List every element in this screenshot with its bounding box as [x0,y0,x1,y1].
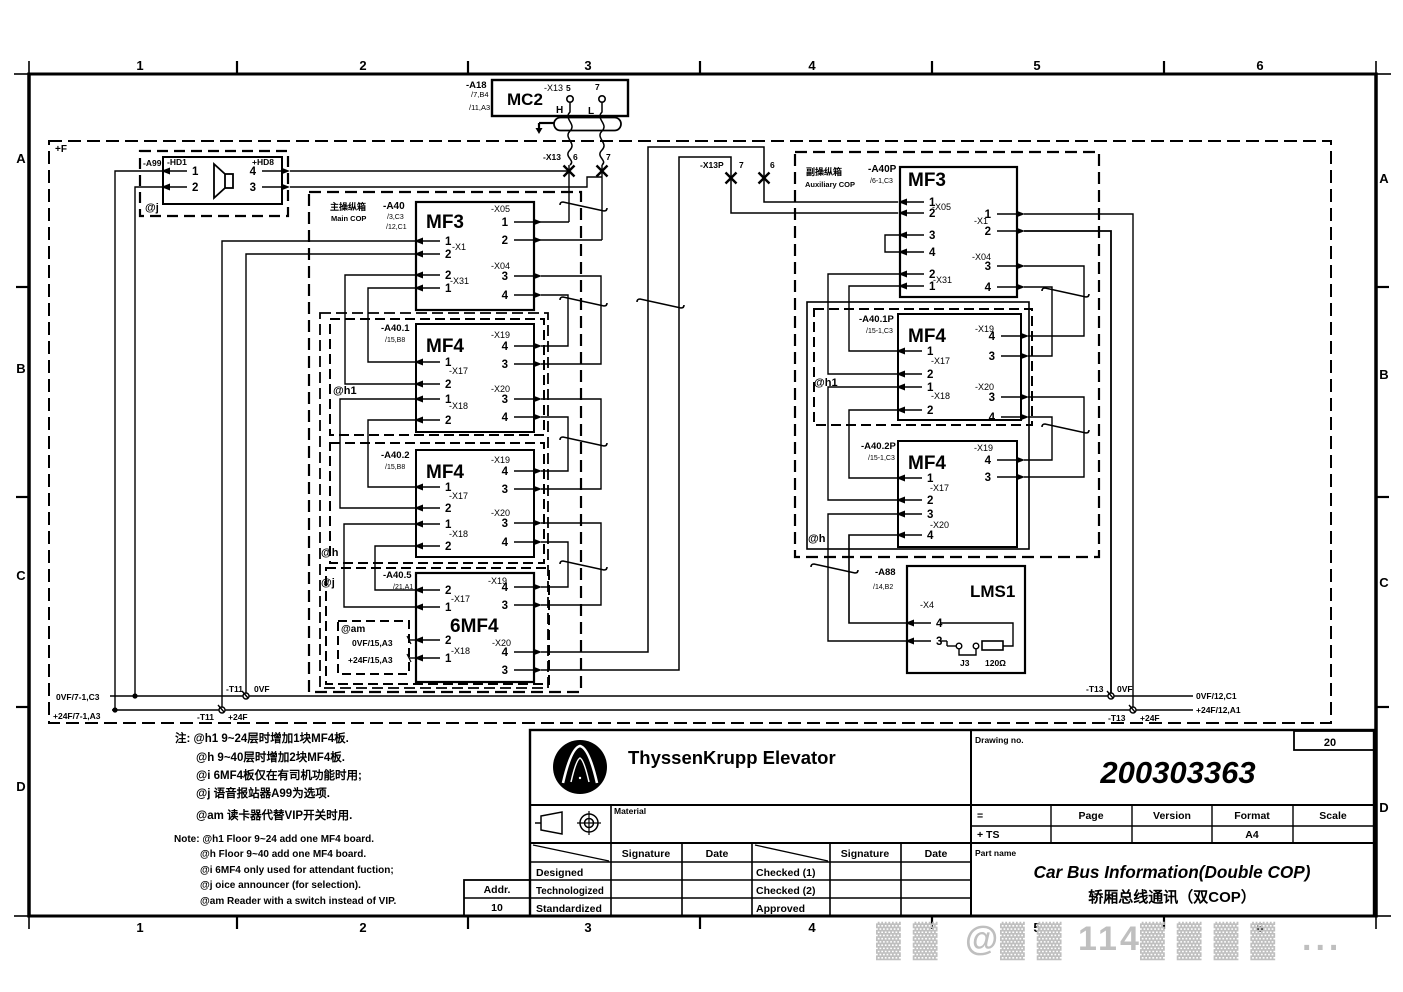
speaker pin 4 [281,168,290,175]
speaker box -A99 +HD1 [163,157,282,204]
wire aux X04-3 to A40.1P X19-4 [1024,266,1084,336]
A40.1P -X18 pin 2 [896,407,905,414]
svg-text:4: 4 [502,582,509,594]
svg-text:+24F/12,A1: +24F/12,A1 [1196,705,1241,715]
addr table [464,880,530,916]
svg-text:0VF: 0VF [1117,684,1133,694]
svg-text:3: 3 [989,351,995,363]
svg-text:Date: Date [925,848,948,860]
svg-text:1: 1 [445,236,452,248]
svg-text:/6-1,C3: /6-1,C3 [870,178,893,185]
svg-text:MF3: MF3 [426,212,464,233]
A40.1P -X20 pin 4 [1020,414,1029,421]
connector -X13 pin 7 [597,166,608,177]
aux MF3 jumper pins 3-4 [885,235,900,252]
svg-text:3: 3 [502,518,508,530]
A40.1P -X18 pin 1 [896,384,905,391]
aux MF3 -X31 pin 1 [898,283,907,290]
wire speaker pin2 to 0VF rail [135,187,163,696]
wire @am to 6MF4 X18-2 [409,639,416,641]
page reference mark 8 [811,564,858,573]
title block logo [553,740,607,794]
svg-text:4: 4 [502,647,509,659]
wire MF3 X04-4 to A40.1 X19-4 [541,295,568,346]
svg-text:Date: Date [706,848,729,860]
svg-text:1: 1 [136,920,143,935]
svg-text:-X05: -X05 [932,202,951,212]
aux MF3 -X31 pin 2 [898,271,907,278]
svg-text:Part name: Part name [975,848,1016,858]
0VF rail [110,695,1193,697]
svg-text:+24F: +24F [1140,713,1160,723]
svg-text:+24F: +24F [228,712,248,722]
svg-text:Signature: Signature [841,848,890,860]
svg-text:4: 4 [502,290,509,302]
svg-text:7: 7 [739,160,744,170]
svg-text:-A99: -A99 [143,158,162,168]
MC2 pin circles [567,96,573,102]
wire A40.1P X20-3 to A40.2P X19-3 [1024,397,1084,477]
svg-text:7: 7 [606,152,611,162]
svg-text:副操纵箱: 副操纵箱 [806,166,842,177]
svg-text:3: 3 [584,58,591,73]
wire aux X31-2 to A40.1P X17-2 [828,274,900,374]
A40.2 -X20 pin 3 [533,520,542,527]
svg-text:Material: Material [614,806,646,816]
row ruler ticks [16,286,29,288]
svg-text:-X19: -X19 [491,455,510,465]
cable shield oval [554,118,621,131]
A40.2 -X17 pin 2 [414,505,423,512]
main COP dashed box -A40 [309,192,581,692]
svg-text:-X18: -X18 [449,529,468,539]
svg-text:4: 4 [985,455,992,467]
svg-text:MC2: MC2 [507,90,543,109]
svg-text:Note: @h1 Floor 9~24 add one: Note: @h1 Floor 9~24 add one MF4 board. [174,834,374,845]
svg-text:0VF/15,A3: 0VF/15,A3 [352,638,393,648]
svg-text:-X20: -X20 [491,508,510,518]
A40.1P -X17 pin 1 [896,348,905,355]
A40.1 -X17 pin 2 [414,381,423,388]
wire A40.2 X18-1 to 6MF4 X17-1 [344,524,416,607]
svg-text:-A40.5: -A40.5 [383,570,412,581]
svg-text:3: 3 [985,472,991,484]
svg-text:3: 3 [502,394,508,406]
svg-text:-X31: -X31 [450,276,469,286]
svg-text:Car Bus Information(Double COP: Car Bus Information(Double COP) [1034,862,1311,882]
wire MF3 X04-3 to A40.1 X19-3 [541,276,601,364]
aux MF3 -X04 pin 4 [1016,284,1025,291]
A40.2 -X19 pin 4 [533,468,542,475]
junction speaker pin1 +24F [112,707,117,712]
MC2 unit -A18 [492,80,628,116]
page reference mark 3 [637,299,684,308]
svg-text:Technologized: Technologized [536,886,604,897]
svg-text:Version: Version [1153,810,1191,822]
svg-text:-X13: -X13 [544,83,563,93]
speaker pin 1 [161,168,170,175]
svg-text:ThyssenKrupp Elevator: ThyssenKrupp Elevator [628,747,836,768]
svg-text:-X04: -X04 [491,261,510,271]
svg-text:-A88: -A88 [875,567,896,578]
svg-text:-HD1: -HD1 [167,157,187,167]
MF3 -X31 pin 2 [414,272,423,279]
svg-text:200303363: 200303363 [1099,755,1255,790]
svg-text:@h1: @h1 [333,385,357,397]
A40.1 -X17 pin 1 [414,359,423,366]
svg-text:2: 2 [445,415,451,427]
wire A40.1 X18-2 to A40.2 X17-1 [368,420,416,487]
svg-text:-X19: -X19 [974,443,993,453]
6MF4 -X17 pin 1 [414,604,423,611]
main MF3 board [416,202,534,310]
LMS1 unit -A88 [907,566,1025,673]
A40.2 -X19 pin 3 [533,486,542,493]
svg-text:-X1: -X1 [452,242,466,252]
svg-text:+ TS: + TS [977,829,999,841]
svg-text:4: 4 [502,466,509,478]
wire A40.2P X20-4 to LMS1 X4-4 [849,535,907,623]
MF3 -X1 pin 1 [414,238,423,245]
terminating resistor 120R [982,641,1003,650]
svg-text:Checked (2): Checked (2) [756,885,816,897]
svg-text:Checked (1): Checked (1) [756,867,816,879]
svg-text:4: 4 [936,618,943,630]
junction speaker pin2 0VF [132,693,137,698]
svg-text:3: 3 [502,600,508,612]
board -A40.2P MF4 [898,441,1017,547]
svg-text:3: 3 [936,636,942,648]
svg-text:@h: @h [808,533,826,545]
speaker dashed enclosure [140,151,288,216]
aux MF3 -X04 pin 3 [1016,263,1025,270]
aux MF3 pin 3 [898,232,907,239]
svg-text:-A40P: -A40P [868,164,897,175]
MF3 -X05 pin 1 [533,219,542,226]
page version format scale header [971,825,1374,827]
A40.1 -X18 pin 1 [414,396,423,403]
svg-text:J3: J3 [960,658,970,668]
column ruler ticks [236,61,238,74]
svg-text:-A40.1: -A40.1 [381,323,410,334]
svg-text:4: 4 [929,247,936,259]
svg-text:-X05: -X05 [491,204,510,214]
svg-text:@am: @am [341,624,365,635]
svg-text:-X13: -X13 [543,152,561,162]
svg-text:-A40.2P: -A40.2P [861,441,897,452]
svg-text:4: 4 [989,412,996,424]
svg-text:LMS1: LMS1 [970,582,1015,601]
svg-text:-X18: -X18 [449,401,468,411]
svg-text:C: C [1379,575,1389,590]
wire MF3 X1-2 to -T11 0VF [246,254,416,696]
svg-text:-X31: -X31 [933,275,952,285]
svg-text:10: 10 [491,902,503,914]
svg-text:3: 3 [985,261,991,273]
svg-text:D: D [1379,800,1388,815]
wire aux X1-1 to -T13 +24F [1024,214,1133,710]
svg-text:Addr.: Addr. [484,884,511,896]
svg-text:2: 2 [927,495,933,507]
board -A40.2 MF4 [416,450,534,557]
svg-text:4: 4 [989,331,996,343]
svg-text:6MF4: 6MF4 [450,616,499,637]
svg-text:@am Reader with a switch inst: @am Reader with a switch instead of VIP. [200,896,397,907]
svg-text:+F: +F [55,144,67,155]
wire A40.1P X18-1 to A40.2P X17-2 [828,387,898,500]
svg-text:2: 2 [445,503,451,515]
title block grid left [530,804,1374,806]
svg-text:@i 6MF4板仅在有司机功能时用;: @i 6MF4板仅在有司机功能时用; [196,768,362,782]
6MF4 -X17 pin 2 [414,587,423,594]
svg-text:/7,B4: /7,B4 [471,90,489,99]
svg-text:@h Floor 9~40 add one MF4 boa: @h Floor 9~40 add one MF4 board. [200,849,366,860]
svg-text:0VF/12,C1: 0VF/12,C1 [1196,691,1237,701]
6MF4 -X19 pin 4 [533,584,542,591]
A40.2P -X17 pin 1 [896,475,905,482]
LMS1 -X4 pin 3 [905,638,914,645]
svg-text:-T13: -T13 [1108,713,1126,723]
svg-text:2: 2 [445,379,451,391]
svg-text:Designed: Designed [536,867,583,879]
page reference mark 1 [560,202,607,211]
svg-text:▓▓@▓▓114▓▓▓▓...: ▓▓@▓▓114▓▓▓▓... [876,920,1342,961]
wire aux X31-1 to A40.1P X17-1 [849,286,900,351]
svg-text:MF4: MF4 [908,326,946,347]
svg-text:-X20: -X20 [491,384,510,394]
+F boundary dashed box [49,141,1331,723]
page reference mark 4 [560,437,607,446]
LMS1 -X4 pin 4 [905,620,914,627]
A40.2P -X17 pin 2 [896,497,905,504]
wire @am to 6MF4 X18-1 [409,657,416,659]
svg-text:/3,C3: /3,C3 [387,214,404,221]
wire A40.2 X20-3 to 6MF4 X19-3 [541,523,601,605]
svg-text:@h 9~40层时增加2块MF4板.: @h 9~40层时增加2块MF4板. [196,750,345,764]
wire speaker pin1 to +24F rail [115,171,163,710]
svg-text:/15-1,C3: /15-1,C3 [866,328,893,335]
svg-text:MF3: MF3 [908,170,946,191]
6MF4 -X18 pin 2 [414,637,423,644]
6MF4 -X20 pin 3 [533,667,542,674]
A40.1 -X19 pin 3 [533,361,542,368]
border frame [29,73,1376,76]
board -A40.1P MF4 [898,314,1021,420]
6MF4 -X20 pin 4 [533,649,542,656]
wire speaker pin4 to -X13 6 [290,170,569,172]
svg-text:-X4: -X4 [920,600,934,610]
svg-text:@j: @j [321,577,335,589]
wire A40.1P X18-2 to A40.2P X17-1 [849,410,898,478]
svg-text:4: 4 [250,166,257,178]
A40.1P -X17 pin 2 [896,371,905,378]
svg-text:2: 2 [985,226,991,238]
aux COP dashed box -A40P [795,152,1099,557]
A40.1P -X19 pin 3 [1020,353,1029,360]
svg-text:3: 3 [929,230,935,242]
svg-text:5: 5 [1033,58,1040,73]
speaker symbol [225,174,233,188]
wire speaker pin3 to -X13 7 [290,177,602,187]
aux MF3 pin 4 [898,249,907,256]
svg-text:/15-1,C3: /15-1,C3 [868,455,895,462]
svg-text:2: 2 [927,405,933,417]
svg-text:A: A [16,151,26,166]
6MF4 -X18 pin 1 [414,655,423,662]
svg-text:Scale: Scale [1319,810,1347,822]
svg-text:Signature: Signature [622,848,671,860]
A40.1 -X19 pin 4 [533,343,542,350]
A40.1P -X19 pin 4 [1020,333,1029,340]
svg-text:6: 6 [770,160,775,170]
wire A40.1P X20-4 to A40.2P X19-4 [1024,417,1052,460]
svg-text:2: 2 [359,920,366,935]
svg-text:-X17: -X17 [449,366,468,376]
wire A40.2 X20-4 to 6MF4 X19-4 [541,542,568,587]
aux MF3 -X05 pin 1 [898,199,907,206]
svg-text:@j 语音报站器A99为选项.: @j 语音报站器A99为选项. [196,786,330,800]
svg-text:H: H [556,105,563,116]
svg-text:B: B [16,361,25,376]
svg-text:Page: Page [1078,810,1103,822]
twisted pair wire L [600,102,604,165]
svg-text:B: B [1379,367,1388,382]
MF3 -X05 pin 2 [533,237,542,244]
svg-text:1: 1 [192,166,199,178]
shield ground symbol [539,122,554,124]
dashed box A40.1P group [814,309,1032,425]
aux boards solid enclosure [807,302,1029,549]
aux MF3 -X05 pin 2 [898,210,907,217]
svg-text:20: 20 [1324,737,1336,749]
svg-text:+24F/15,A3: +24F/15,A3 [348,655,393,665]
wire A40.1 X20-4 to A40.2 X19-4 [541,417,568,471]
A40.2P -X19 pin 4 [1016,457,1025,464]
A40.1 -X20 pin 3 [533,396,542,403]
svg-text:C: C [16,568,26,583]
jumper J3 [956,643,962,649]
page reference mark 5 [560,561,607,570]
svg-text:-A40.1P: -A40.1P [859,314,895,325]
wire A40.1 X20-3 to A40.2 X19-3 [541,399,601,489]
svg-text:MF4: MF4 [908,453,946,474]
svg-text:注: @h1 9~24层时增加1块MF4板.: 注: @h1 9~24层时增加1块MF4板. [175,731,349,745]
svg-text:1: 1 [136,58,143,73]
board -A40.1 MF4 [416,324,534,432]
svg-text:轿厢总线通讯（双COP）: 轿厢总线通讯（双COP） [1088,888,1256,906]
@am option box [338,621,409,674]
svg-text:0VF: 0VF [254,684,270,694]
connector -X13P pin 7 [726,173,737,184]
A40.1 -X20 pin 4 [533,414,542,421]
wire A40.1 X18-1 to A40.2 X17-2 [340,399,416,508]
MF3 -X04 pin 3 [533,273,542,280]
svg-text:2: 2 [192,182,198,194]
svg-text:1: 1 [502,217,509,229]
main boards group dashed enclosure [320,313,548,688]
page reference mark 6 [1042,288,1089,297]
svg-text:1: 1 [985,209,992,221]
svg-text:4: 4 [502,412,509,424]
svg-text:6: 6 [1256,58,1263,73]
wire MF3 X1-1 to -T11 +24F [222,241,416,710]
svg-text:-X17: -X17 [451,594,470,604]
svg-text:/12,C1: /12,C1 [386,224,407,231]
svg-text:-X17: -X17 [930,483,949,493]
svg-text:3: 3 [502,665,508,677]
svg-text:4: 4 [985,282,992,294]
signature header row [861,842,863,844]
LMS1 internal wire to resistor [940,623,1013,646]
svg-text:4: 4 [927,530,934,542]
svg-text:/15,B8: /15,B8 [385,337,405,344]
svg-text:3: 3 [989,392,995,404]
page reference mark 2 [560,297,607,306]
twisted pair wire H [568,102,572,165]
A40.2 -X20 pin 4 [533,539,542,546]
wire aux X04-4 to A40.1P X19-3 [1024,287,1052,356]
svg-text:-X18: -X18 [451,646,470,656]
svg-text:120Ω: 120Ω [985,658,1006,668]
A40.2P -X20 pin 3 [896,511,905,518]
svg-text:/14,B2: /14,B2 [873,584,893,591]
svg-text:Approved: Approved [756,903,805,915]
MF3 -X04 pin 4 [533,292,542,299]
svg-text:/11,A3: /11,A3 [469,103,490,112]
MF3 -X31 pin 1 [414,285,423,292]
MF3 -X1 pin 2 [414,251,423,258]
svg-text:3: 3 [502,271,508,283]
projection symbols [535,812,562,834]
svg-text:Main COP: Main COP [331,214,366,223]
connector -X13P pin 6 [759,173,770,184]
aux MF3 -X1 pin 1 [1016,211,1025,218]
wire aux X1-2 to -T13 0VF [1024,231,1111,696]
svg-text:Drawing no.: Drawing no. [975,735,1024,745]
svg-text:3: 3 [584,920,591,935]
svg-text:A4: A4 [1245,829,1259,841]
svg-text:4: 4 [808,58,816,73]
aux MF3 -X1 pin 2 [1016,228,1025,235]
svg-text:-X13P: -X13P [700,160,724,170]
svg-text:@i 6MF4 only used for attenda: @i 6MF4 only used for attendant fuction; [200,865,394,876]
svg-text:-X17: -X17 [449,491,468,501]
dashed box 6MF4 group [326,568,549,684]
title block outline [530,730,1374,916]
svg-text:3: 3 [250,182,256,194]
svg-text:-X20: -X20 [975,382,994,392]
A40.2P -X20 pin 4 [896,532,905,539]
svg-text:2: 2 [359,58,366,73]
svg-text:4: 4 [502,341,509,353]
A40.1 -X18 pin 2 [414,417,423,424]
svg-text:2: 2 [927,369,933,381]
aux MF3 board [900,167,1017,297]
svg-text:D: D [16,779,25,794]
A40.2P -X19 pin 3 [1016,474,1025,481]
wire 6MF4 X20-3 to -X13P 7 aux MF3 X05-2 [541,157,898,670]
svg-text:-A40: -A40 [383,201,405,212]
svg-text:=: = [977,810,983,822]
6MF4 -X19 pin 3 [533,602,542,609]
+24F rail [112,709,1193,711]
speaker pin 2 [161,184,170,191]
svg-text:-X20: -X20 [930,520,949,530]
svg-text:2: 2 [445,249,451,261]
svg-text:Format: Format [1234,810,1270,822]
svg-text:@am 读卡器代替VIP开关时用.: @am 读卡器代替VIP开关时用. [196,808,352,822]
wire A40.2 X18-2 to 6MF4 X17-2 [375,546,416,590]
